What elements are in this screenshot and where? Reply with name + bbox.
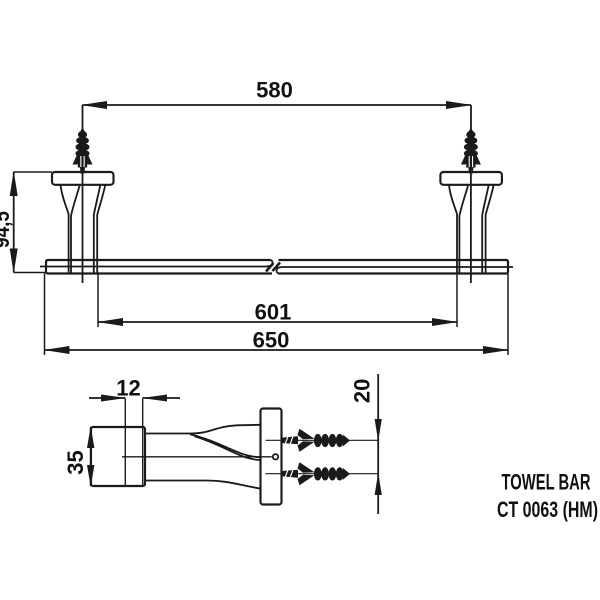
towel bar right segment break hook xyxy=(277,267,283,274)
left post screw centerline xyxy=(82,172,84,283)
side view: post top profile xyxy=(145,425,261,434)
right post screw centerline xyxy=(470,172,472,283)
dimension 580 left drop line xyxy=(82,105,84,129)
dimension 12 right arrow xyxy=(142,395,167,402)
svg-text:12: 12 xyxy=(116,376,140,401)
side view: bar cross-section rectangle xyxy=(91,427,145,486)
right wall anchor plug with screw xyxy=(461,127,481,174)
side view: post bottom profile xyxy=(145,481,261,489)
side view: post centerline xyxy=(122,456,272,458)
dimension 580 right arrow xyxy=(446,101,472,109)
svg-text:94,5: 94,5 xyxy=(0,211,14,248)
dimension 601 right arrow xyxy=(432,318,458,326)
towel bar right segment middle line xyxy=(283,266,514,268)
side view: bottom anchor with screw xyxy=(282,462,351,485)
dimension 20 line xyxy=(377,374,379,514)
extension line 650 right xyxy=(507,274,509,356)
right post legs xyxy=(449,185,457,273)
side view: top screw centerline xyxy=(266,439,379,441)
dimension 20 lower arrow (up) xyxy=(375,473,382,495)
dimension 650 right arrow xyxy=(483,346,509,354)
dimension 94,5 line xyxy=(13,172,15,273)
extension line 650 left xyxy=(44,274,46,356)
side view: stem front line xyxy=(124,399,126,487)
towel bar break interlock mark xyxy=(266,263,280,272)
dimension 12 left line xyxy=(89,397,125,399)
towel bar left segment break hook xyxy=(267,260,273,266)
svg-text:35: 35 xyxy=(63,450,88,474)
dimension 35 top arrow xyxy=(87,426,94,448)
dimension 35 line xyxy=(90,427,92,486)
towel bar left segment middle line xyxy=(40,266,267,268)
right post flange xyxy=(440,172,502,185)
dimension 580 right drop line xyxy=(470,105,472,129)
dimension 650 left arrow xyxy=(44,346,70,354)
dimension 650 line xyxy=(45,349,509,351)
side view: top anchor with screw xyxy=(282,429,351,452)
svg-text:20: 20 xyxy=(350,379,375,403)
side view: bottom screw centerline xyxy=(266,473,379,475)
left wall anchor plug with screw xyxy=(73,127,93,174)
side view: stem back line xyxy=(142,399,144,487)
dimension 94,5 top arrow xyxy=(10,171,18,196)
dimension 94,5 top extension line xyxy=(14,171,52,173)
side view: post neck upper line xyxy=(190,434,261,457)
dimension 12 left arrow xyxy=(101,395,126,402)
dimension 580 line xyxy=(83,104,472,106)
svg-text:580: 580 xyxy=(256,78,293,103)
dimension 94,5 bottom extension line xyxy=(14,272,46,274)
left post legs xyxy=(61,185,69,273)
towel bar right segment outline xyxy=(279,260,509,274)
side view: screw hole circle xyxy=(273,454,278,459)
svg-text:CT 0063 (HM): CT 0063 (HM) xyxy=(497,497,598,522)
side view: post neck lower line xyxy=(195,436,261,460)
dimension 35 bottom arrow xyxy=(87,465,94,487)
svg-text:601: 601 xyxy=(255,300,292,325)
dimension 601 left arrow xyxy=(97,318,123,326)
dimension 94,5 bottom arrow xyxy=(10,249,18,274)
extension line 601 right xyxy=(456,274,458,328)
dimension 580 left arrow xyxy=(81,101,107,109)
svg-text:650: 650 xyxy=(253,328,290,353)
towel bar left segment outline xyxy=(46,260,272,274)
left post flange xyxy=(52,172,114,185)
dimension 20 upper arrow (down) xyxy=(375,419,382,441)
dimension 12 right line xyxy=(143,397,180,399)
svg-text:TOWEL BAR: TOWEL BAR xyxy=(502,470,591,495)
side view: wall plate xyxy=(261,409,282,505)
dimension 601 line xyxy=(98,321,457,323)
extension line 601 left xyxy=(97,274,99,328)
